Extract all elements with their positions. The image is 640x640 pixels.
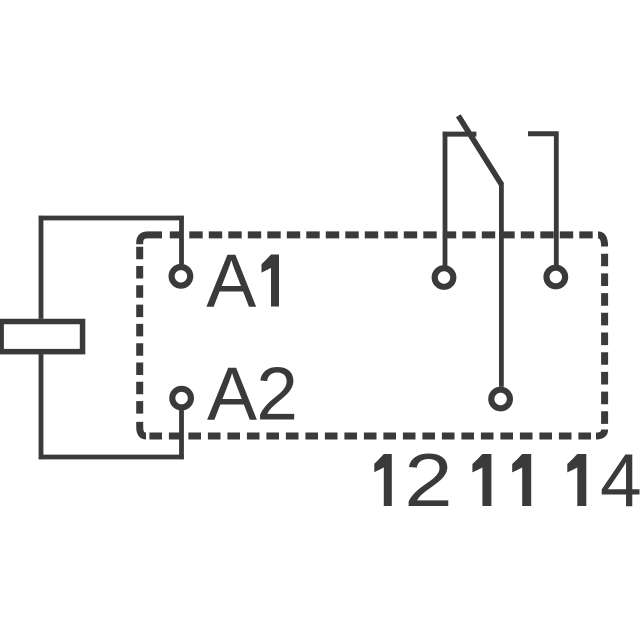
contact bar pin 12 (NC) (443, 132, 477, 137)
wire: bottom horizontal to A2 (39, 455, 184, 460)
relay case outline: bottom-left corner hook (140, 422, 146, 436)
terminal A1 (172, 267, 191, 286)
contact bar pin 14 (NO) (528, 131, 559, 136)
coil K1 (1, 322, 82, 352)
svg-text:2: 2 (256, 351, 298, 435)
pin number 14 digit 1 (567, 454, 586, 506)
wire: A2 terminal riser (179, 410, 184, 459)
relay case outline: left dashed edge (136, 247, 143, 417)
wire: pin 12 stationary contact lead (443, 132, 448, 266)
wire: coil top lead (39, 216, 44, 319)
wire: A1 terminal drop (179, 216, 184, 264)
relay case outline: bottom dashed edge (146, 433, 591, 440)
pin label A1 digit 1 (262, 255, 280, 307)
svg-text:A: A (207, 351, 257, 435)
wire: pin 14 stationary contact lead (554, 132, 559, 266)
wire: top horizontal to A1 (39, 216, 184, 221)
relay case outline: top-left corner hook (140, 235, 162, 244)
svg-text:A: A (206, 239, 256, 323)
svg-text:4: 4 (600, 438, 640, 522)
svg-text:2: 2 (404, 439, 452, 523)
relay case outline: bottom-right corner hook (596, 430, 605, 437)
pin number 11 digit 1b (512, 454, 531, 506)
terminal 14 (547, 268, 566, 287)
terminal 12 (435, 268, 454, 287)
relay case outline: top-right corner hook (598, 235, 605, 247)
terminal 11 (491, 390, 510, 409)
armature (movable contact, slant) (458, 116, 501, 185)
wire: pin 11 common lead (499, 183, 504, 387)
relay case outline: top dashed edge (170, 231, 593, 238)
relay case outline: right dashed edge (601, 254, 608, 425)
pin number 12 digit 1 (374, 454, 392, 506)
terminal A2 (172, 389, 191, 408)
wire: coil bottom lead (39, 354, 44, 459)
pin number 11 digit 1 (472, 454, 491, 506)
